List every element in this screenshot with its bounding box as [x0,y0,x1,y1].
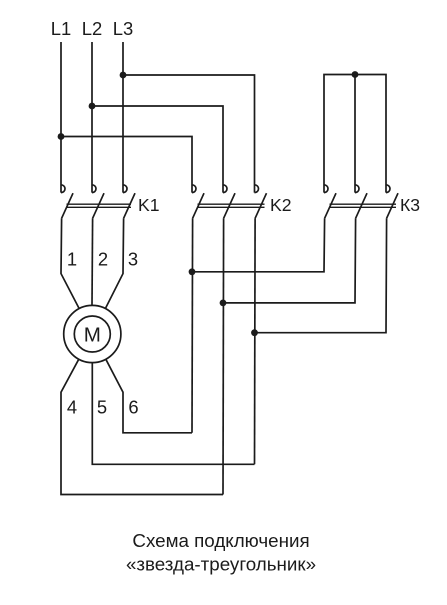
wire motor terminal 6 to K2 pole1 bottom [106,359,192,433]
wire K2 pole2 bottom run [222,218,225,494]
svg-text:Схема подключения: Схема подключения [132,530,309,551]
contactor K1 pole 3 contact [123,185,135,219]
junction dot K2 pole2 branch [220,300,227,307]
svg-text:L1: L1 [51,18,71,39]
svg-text:2: 2 [98,248,108,269]
wire motor terminal 5 to K2 pole3 bottom [92,363,254,465]
motor M outer circle [64,305,121,362]
wire K3 pole1 bottom to K2 pole1 [192,218,325,271]
svg-text:4: 4 [67,396,77,417]
svg-text:К3: К3 [400,195,420,215]
svg-text:K1: K1 [138,195,160,215]
svg-text:1: 1 [67,248,77,269]
contactor K3 linkage [330,204,397,207]
wire L2 branch to K2 pole2 [92,106,223,193]
wire K2 pole3 bottom run [254,218,257,464]
wire L3 branch to K2 pole3 [123,75,255,193]
wire L2 vertical to K1 pole2 [91,42,93,193]
wire K3 star bar and drops [324,75,386,193]
wire K3 pole3 bottom to K2 pole3 [255,218,387,332]
contactor K3 pole 3 contact [386,185,398,219]
svg-text:L3: L3 [113,18,133,39]
contactor K1 pole 2 contact [92,185,104,219]
junction dot K2 pole1 branch [189,268,196,275]
junction dot L3 [120,72,127,79]
wire motor terminal 4 to K2 pole2 bottom [61,359,223,494]
contactor K2 pole 2 contact [223,185,235,219]
wire K3 pole2 bottom to K2 pole2 [223,218,356,303]
svg-text:K2: K2 [270,195,292,215]
wire L1 branch to K2 pole1 [61,137,192,193]
svg-text:«звезда-треугольник»: «звезда-треугольник» [126,554,316,575]
junction dot K2 pole3 branch [251,329,258,336]
contactor K2 pole 1 contact [192,185,204,219]
wire L1 vertical to K1 pole1 [60,42,62,193]
svg-text:5: 5 [97,396,107,417]
svg-text:L2: L2 [82,18,102,39]
wire K1 pole3 to motor terminal 3 [105,218,123,308]
motor M inner circle [74,316,110,352]
contactor K3 pole 2 contact [355,185,367,219]
contactor K2 pole 3 contact [255,185,267,219]
wire K1 pole1 to motor terminal 1 [61,218,79,308]
junction dot L1 [58,133,65,140]
wire K1 pole2 to motor terminal 2 [91,218,94,305]
junction dot L2 [89,103,96,110]
junction dot star point [352,71,359,78]
svg-text:M: M [84,323,101,346]
wire K2 pole1 bottom run [191,218,194,432]
svg-text:6: 6 [128,396,138,417]
contactor K1 pole 1 contact [61,185,73,219]
wire L3 vertical to K1 pole3 [122,42,124,193]
contactor K2 linkage [198,204,265,207]
svg-text:3: 3 [128,248,138,269]
contactor K1 linkage [67,204,132,207]
contactor K3 pole 1 contact [324,185,336,219]
